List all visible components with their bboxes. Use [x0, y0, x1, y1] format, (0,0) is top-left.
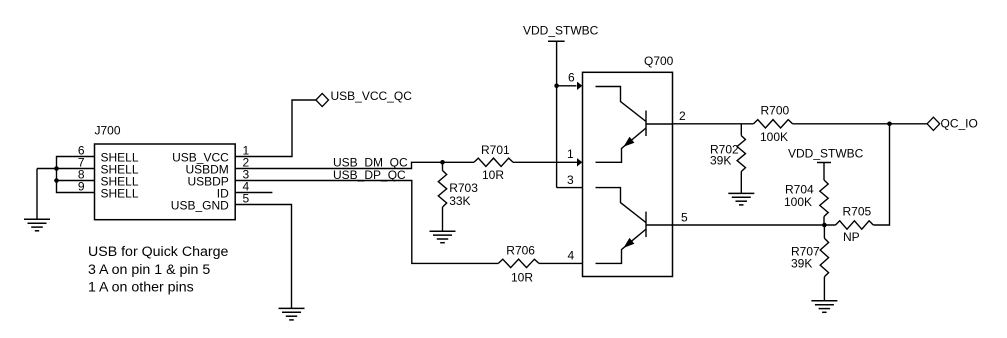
wire Q700 pin 6	[557, 85, 577, 87]
svg-text:2: 2	[679, 109, 686, 123]
junction dot QC_IO	[887, 122, 892, 127]
junction dot R704/R705/R707	[822, 223, 827, 228]
wire ID stub (pin 4)	[235, 192, 272, 194]
svg-text:1 A on other pins: 1 A on other pins	[88, 279, 194, 295]
svg-text:39K: 39K	[791, 256, 812, 270]
resistor R707	[791, 225, 829, 301]
power VDD_STWBC (right)	[788, 147, 864, 180]
svg-text:USB for Quick Charge: USB for Quick Charge	[88, 244, 228, 260]
svg-text:100K: 100K	[760, 130, 788, 144]
resistor R700	[754, 104, 793, 145]
resistor R703	[438, 162, 478, 231]
resistor R705	[836, 204, 874, 244]
pin arrow Q700 pin 6	[577, 82, 582, 90]
ground USB_GND	[279, 308, 305, 320]
note: USB quick charge text	[88, 244, 228, 295]
svg-text:3 A on pin 1 & pin 5: 3 A on pin 1 & pin 5	[88, 262, 210, 278]
junction dot shell pin 8	[54, 178, 59, 183]
resistor R704	[784, 180, 828, 225]
svg-text:5: 5	[681, 210, 688, 224]
power VDD_STWBC (top)	[523, 23, 599, 187]
wire USB_VCC pin1 to node	[235, 100, 316, 157]
svg-text:R701: R701	[481, 143, 510, 157]
svg-text:1: 1	[567, 147, 574, 161]
svg-text:Q700: Q700	[644, 54, 674, 68]
svg-text:3: 3	[567, 173, 574, 187]
ground R707	[811, 301, 837, 313]
ground R702	[728, 193, 754, 205]
junction dot R703 tap	[440, 160, 445, 165]
wire R705 to QC_IO node	[873, 124, 889, 225]
wire Q700 pin 2	[673, 123, 928, 125]
svg-text:USB_GND: USB_GND	[171, 199, 229, 213]
wire Q700 pin 3	[557, 187, 583, 189]
wire shell bus (pins 6-9)	[37, 157, 95, 193]
pin arrow Q700 pin 1	[577, 158, 582, 166]
svg-text:NP: NP	[843, 230, 860, 244]
transistor Q700 NPN top	[596, 87, 673, 163]
Q700 pin numbers	[567, 71, 688, 263]
transistor Q700 NPN bottom	[596, 188, 673, 264]
svg-text:R700: R700	[761, 104, 790, 118]
transistor Q700 body	[583, 54, 674, 277]
svg-text:R703: R703	[449, 181, 478, 195]
junction dot shell pin 7	[54, 166, 59, 171]
resistor R701	[474, 143, 513, 182]
resistor R706	[498, 244, 539, 285]
junction dot VDD pin 6	[554, 84, 559, 89]
wire Q700 pin 5	[673, 224, 836, 226]
wire shell to ground	[36, 169, 38, 220]
svg-text:J700: J700	[95, 124, 121, 138]
svg-text:9: 9	[78, 180, 85, 194]
connector J700	[78, 124, 250, 220]
svg-text:5: 5	[243, 192, 250, 206]
svg-text:VDD_STWBC: VDD_STWBC	[788, 147, 864, 161]
wire USBDP / USB_DP_QC	[235, 181, 582, 264]
svg-text:4: 4	[568, 249, 575, 263]
node QC_IO	[927, 116, 978, 130]
svg-text:6: 6	[568, 71, 575, 85]
svg-text:VDD_STWBC: VDD_STWBC	[523, 23, 599, 37]
ground R703	[430, 231, 456, 243]
svg-text:USB_DP_QC: USB_DP_QC	[333, 168, 406, 182]
svg-text:QC_IO: QC_IO	[941, 116, 978, 130]
node USB_VCC_QC	[316, 89, 412, 107]
svg-text:R705: R705	[843, 204, 872, 218]
svg-text:USB_VCC_QC: USB_VCC_QC	[331, 89, 413, 103]
resistor R702	[710, 124, 746, 194]
wire USB_GND to ground	[235, 205, 291, 309]
wire USBDM / USB_DM_QC	[235, 162, 577, 168]
ground shell	[24, 219, 50, 231]
svg-text:39K: 39K	[710, 153, 731, 167]
svg-text:SHELL: SHELL	[101, 187, 139, 201]
svg-text:10R: 10R	[482, 168, 504, 182]
svg-text:10R: 10R	[511, 270, 533, 284]
svg-text:33K: 33K	[449, 194, 470, 208]
svg-text:R706: R706	[506, 244, 535, 258]
svg-text:100K: 100K	[784, 195, 812, 209]
